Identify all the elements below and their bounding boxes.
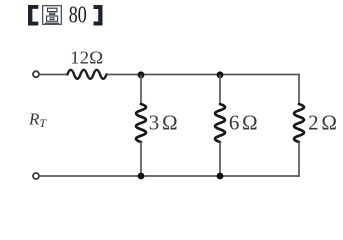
wire 3Ω branch top [140,75,142,105]
terminal top-left [33,71,39,77]
wire top-left to resistor [39,74,67,76]
wire right branch top [298,74,300,105]
resistor 6Ω zigzag [215,104,225,142]
svg-text:80: 80 [69,2,87,29]
svg-text:Ω: Ω [242,110,258,134]
wire bottom [39,175,299,177]
svg-text:2: 2 [308,110,319,134]
wire right branch bottom [298,142,300,177]
svg-text:Ω: Ω [321,110,337,134]
figure title bracket 【 [28,5,38,26]
figure title glyph 圖 [43,6,62,25]
node top of 6Ω branch [217,71,224,78]
figure title bracket 】 [94,5,103,26]
node top of 3Ω branch [138,71,145,78]
svg-text:12Ω: 12Ω [70,47,103,67]
svg-text:3: 3 [149,110,160,134]
wire 3Ω branch bottom [140,142,142,177]
node bottom of 6Ω branch [217,173,224,180]
wire 6Ω branch top [219,75,221,105]
terminal bottom-left [33,173,39,179]
wire top middle [107,74,300,76]
svg-text:Ω: Ω [162,110,178,134]
wire 6Ω branch bottom [219,142,221,177]
svg-text:6: 6 [229,110,240,134]
resistor 3Ω zigzag [136,104,146,142]
node bottom of 3Ω branch [138,173,145,180]
resistor 12Ω zigzag [68,70,107,79]
resistor 2Ω zigzag [294,104,304,142]
